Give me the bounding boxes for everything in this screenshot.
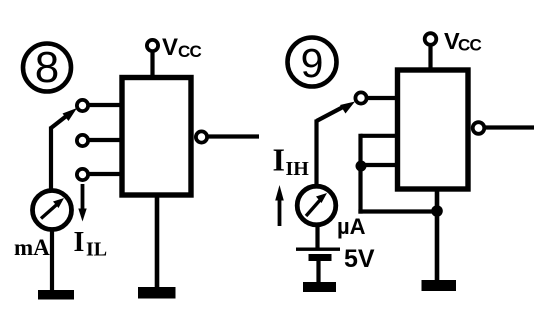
- wire tied input lower (circuit 9): [361, 163, 397, 167]
- wire output (circuit 8): [208, 134, 260, 138]
- switch S2 arm (circuit 9): [317, 102, 356, 122]
- microammeter M2 (circuit 9): [297, 186, 336, 225]
- IC U2 (circuit 9): [398, 70, 469, 189]
- battery B1 positive plate: [296, 248, 340, 251]
- wire tied-input trunk (circuit 9): [358, 134, 362, 214]
- ground (ammeter, circuit 8): [38, 290, 74, 300]
- switch input bubble (circuit 9): [355, 92, 366, 103]
- svg-text:V: V: [162, 34, 178, 61]
- svg-text:IL: IL: [86, 239, 107, 261]
- svg-text:mA: mA: [14, 235, 50, 260]
- wire IC ground pin (circuit 8): [155, 196, 160, 290]
- Vcc terminal bubble (circuit 8): [147, 40, 158, 51]
- wire output (circuit 9): [485, 125, 535, 129]
- wire tied input upper (circuit 9): [361, 134, 397, 138]
- junction dot tied inputs: [356, 161, 367, 172]
- wire input 3 (circuit 8): [89, 172, 121, 176]
- input pin bubble 2 (circuit 8): [77, 135, 88, 146]
- wire Vcc stub (circuit 9): [428, 45, 432, 70]
- label circle 8: [23, 43, 71, 92]
- output pin bubble (circuit 8): [196, 131, 207, 142]
- wire switch to microammeter (circuit 9): [314, 120, 318, 187]
- Vcc terminal bubble (circuit 9): [425, 33, 437, 45]
- label Vcc (circuit 9): [444, 28, 481, 55]
- current arrow I_IL: [78, 184, 86, 222]
- label I_IH: [273, 142, 310, 181]
- wire battery to ground (circuit 9): [316, 261, 320, 284]
- ammeter M1 (circuit 8): [33, 191, 72, 230]
- label Vcc (circuit 8): [162, 34, 201, 61]
- svg-text:IH: IH: [286, 158, 310, 180]
- svg-text:CC: CC: [178, 42, 201, 61]
- input pin bubble 1 (circuit 8): [77, 100, 88, 111]
- svg-text:CC: CC: [458, 36, 481, 55]
- output pin bubble (circuit 9): [473, 122, 485, 134]
- wire trunk to ground pin (circuit 9): [358, 209, 437, 213]
- svg-text:µA: µA: [337, 214, 366, 239]
- wire input 1 (circuit 8): [89, 103, 121, 107]
- svg-text:8: 8: [35, 43, 59, 92]
- wire switch bubble to IC (circuit 9): [367, 96, 396, 100]
- switch S1 arm (circuit 8): [51, 108, 77, 128]
- label circle 9: [288, 38, 337, 87]
- ground (battery, circuit 9): [303, 282, 336, 292]
- svg-text:9: 9: [301, 40, 324, 86]
- ground (IC, circuit 9): [422, 280, 457, 291]
- wire input 2 (circuit 8): [89, 138, 121, 142]
- battery B1 negative plate: [309, 254, 332, 261]
- wire meter to battery (circuit 9): [315, 224, 319, 249]
- wire Vcc stub (circuit 8): [150, 52, 154, 78]
- svg-text:I: I: [74, 227, 85, 258]
- ground (IC, circuit 8): [138, 287, 176, 299]
- IC U1 (circuit 8): [122, 78, 191, 196]
- label I_IL: [74, 227, 108, 261]
- wire IC ground pin (circuit 9): [435, 189, 440, 283]
- input pin bubble 3 (circuit 8): [77, 169, 88, 180]
- wire switch to ammeter (circuit 8): [49, 127, 53, 191]
- svg-text:I: I: [273, 142, 285, 178]
- wire ammeter to ground (circuit 8): [50, 229, 54, 293]
- svg-text:5V: 5V: [344, 245, 375, 273]
- current arrow I_IH: [275, 185, 284, 226]
- junction dot ground pin: [431, 205, 443, 217]
